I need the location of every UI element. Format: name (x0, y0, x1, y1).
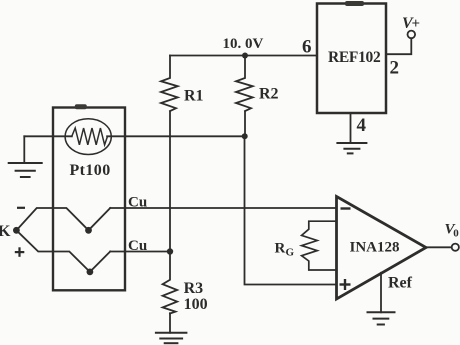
svg-text:Ref: Ref (388, 275, 413, 292)
wire Ref to ground (380, 273, 382, 313)
svg-text:R3: R3 (184, 280, 204, 297)
svg-text:Cu: Cu (128, 238, 147, 254)
label minus (thermocouple) (17, 207, 25, 209)
svg-text:+: + (412, 16, 421, 32)
resistor RG (302, 221, 337, 270)
wire thermocouple lower lead (16, 230, 110, 272)
smudge artifact top of REF102 (345, 1, 364, 6)
node lower junction dot (87, 269, 94, 276)
svg-text:Pt100: Pt100 (70, 162, 111, 179)
wire pin4 drop (350, 113, 352, 143)
resistor R1 (161, 56, 178, 112)
label plus input (340, 279, 351, 290)
svg-text:100: 100 (184, 296, 208, 313)
node R1/R3/Cu junction (167, 248, 173, 254)
svg-text:2: 2 (390, 58, 400, 79)
ground left of Pt100 (9, 163, 42, 177)
svg-text:6: 6 (302, 37, 312, 58)
wire lower Cu run (110, 251, 170, 253)
svg-text:0: 0 (453, 228, 459, 240)
resistor R2 (236, 56, 253, 112)
REF102 box U1 (317, 4, 386, 114)
wire R1 bottom column to lower Cu junction (169, 111, 171, 251)
label plus (thermocouple) (15, 247, 24, 256)
Pt100 RTD zigzag (72, 128, 108, 145)
wire upper Cu run to INA128 minus input (110, 207, 336, 209)
terminal V+ circle (408, 31, 416, 39)
terminal V0 circle (452, 244, 459, 251)
node K terminal (13, 227, 20, 234)
svg-text:REF102: REF102 (328, 49, 381, 66)
wire R2 column down to + input (245, 136, 337, 284)
svg-text:R: R (275, 241, 286, 257)
node R2/Pt100 junction (242, 133, 248, 139)
ground below Ref (368, 312, 395, 324)
ground below REF102 (337, 143, 366, 153)
svg-text:10. 0V: 10. 0V (223, 36, 264, 52)
wire left ground drop (23, 136, 25, 163)
smudge artifact top of Pt100 box (75, 104, 87, 109)
label minus input (341, 207, 351, 209)
wire Pt100 main horizontal (24, 135, 72, 137)
resistor R3 (163, 252, 178, 314)
wire R3 to ground (169, 313, 171, 333)
svg-text:K: K (0, 223, 11, 240)
wire output to V0 (426, 246, 452, 248)
Pt100 box (53, 108, 125, 291)
wire pin2 to V+ terminal (386, 38, 411, 54)
wire thermocouple upper lead (16, 208, 110, 230)
svg-text:R2: R2 (259, 86, 279, 103)
svg-text:R1: R1 (184, 88, 204, 105)
svg-text:G: G (286, 247, 295, 259)
svg-text:4: 4 (357, 115, 367, 136)
op-amp INA128 triangle (337, 197, 427, 300)
node upper junction dot (85, 227, 92, 234)
node 10.0V/R2 junction (242, 53, 248, 59)
wire R2 bottom stub (244, 111, 246, 136)
wire 10.0V rail (170, 55, 317, 57)
ground below R3 (156, 333, 187, 343)
svg-text:INA128: INA128 (350, 240, 400, 256)
svg-text:Cu: Cu (128, 195, 147, 211)
Pt100 RTD ellipse (65, 119, 111, 155)
